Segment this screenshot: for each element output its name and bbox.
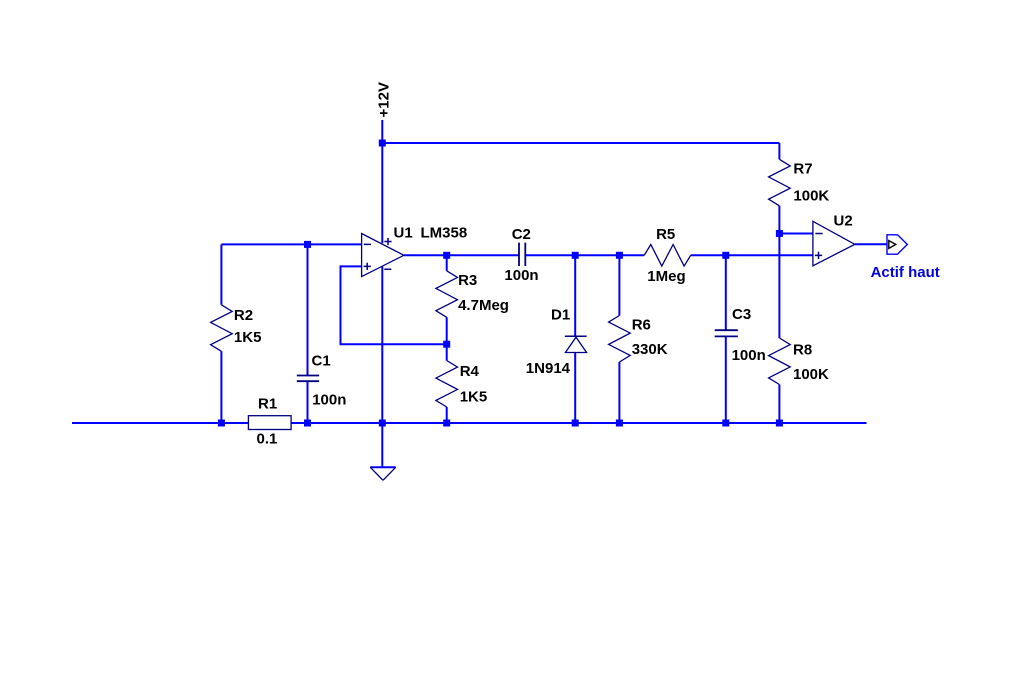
junction node rail C3	[722, 420, 729, 427]
wire R8 bottom to ground rail	[778, 385, 780, 424]
svg-text:1Meg: 1Meg	[647, 268, 685, 285]
junction node C1 top	[304, 241, 311, 248]
svg-text:Actif haut: Actif haut	[871, 264, 940, 281]
output port Actif haut	[887, 235, 907, 254]
wire bottom rail right of R1	[291, 422, 866, 424]
junction node rail ground	[379, 420, 386, 427]
junction node R3-R4 feedback	[443, 341, 450, 348]
resistor R5 (horizontal)	[644, 245, 691, 267]
svg-text:1N914: 1N914	[526, 360, 571, 377]
resistor R4	[436, 361, 458, 408]
svg-text:U2: U2	[834, 212, 853, 229]
svg-text:100n: 100n	[504, 267, 538, 284]
svg-text:R6: R6	[632, 316, 651, 333]
junction node rail R2	[218, 420, 225, 427]
svg-text:D1: D1	[551, 307, 570, 324]
diode D1	[565, 336, 587, 352]
svg-text:C2: C2	[512, 226, 531, 243]
op-amp U2 input marks	[815, 234, 823, 260]
junction node U2 inverting input	[776, 230, 783, 237]
resistor R2	[211, 305, 233, 352]
resistor R8	[769, 338, 791, 385]
wire top +12V rail	[382, 142, 779, 144]
junction node at +12V rail	[379, 140, 386, 147]
wire U1 bottom power to ground	[381, 266, 383, 467]
wire R4 bottom stub	[446, 407, 448, 423]
wire +12V vertical power drop through U1 top	[381, 120, 383, 243]
junction node C3 top	[722, 252, 729, 259]
svg-text:R1: R1	[258, 395, 277, 412]
svg-text:+12V: +12V	[376, 82, 393, 117]
junction node rail R8	[776, 420, 783, 427]
wire main signal U1 output to C2	[404, 254, 519, 256]
svg-text:C3: C3	[732, 306, 751, 323]
wire U2 output to port	[855, 243, 887, 245]
capacitor C2	[519, 243, 525, 266]
resistor R3	[436, 271, 458, 318]
wire R3 top stub	[446, 255, 448, 270]
svg-text:R5: R5	[656, 226, 675, 243]
wire R7 drop from rail	[778, 143, 780, 159]
wire R6 top stub	[618, 255, 620, 315]
svg-text:U1: U1	[394, 224, 413, 241]
wire R2 top to U1 inverting input	[221, 243, 361, 245]
svg-text:100n: 100n	[312, 392, 346, 409]
wire C3 bottom stub	[725, 336, 727, 423]
wire D1 bottom stub	[574, 353, 576, 424]
svg-text:R8: R8	[793, 341, 812, 358]
svg-text:C1: C1	[312, 353, 331, 370]
wire main signal R5 to U2 plus input	[691, 254, 813, 256]
junction node rail R6	[616, 420, 623, 427]
wire C3 top stub	[725, 255, 727, 330]
svg-text:330K: 330K	[632, 341, 668, 358]
wire U2 inverting input stub	[779, 233, 813, 235]
wire C1 bottom vertical	[307, 381, 309, 423]
ground	[370, 467, 395, 480]
svg-text:1K5: 1K5	[234, 329, 262, 346]
svg-text:100n: 100n	[732, 347, 766, 364]
svg-text:R4: R4	[460, 363, 480, 380]
svg-text:4.7Meg: 4.7Meg	[458, 297, 509, 314]
junction node R3 top / U1 output	[443, 252, 450, 259]
junction node rail R4	[443, 420, 450, 427]
svg-text:R3: R3	[458, 272, 477, 289]
wire main signal C2 to R5	[525, 254, 644, 256]
resistor R7	[769, 159, 791, 206]
wire R3 bottom stub	[446, 317, 448, 344]
svg-text:R7: R7	[793, 161, 812, 178]
svg-text:100K: 100K	[793, 187, 829, 204]
capacitor C3	[715, 330, 738, 336]
capacitor C1	[297, 376, 319, 382]
wire R7 to R8 vertical link	[778, 206, 780, 338]
wire D1 top stub	[574, 255, 576, 336]
wire R4 top stub	[446, 344, 448, 360]
resistor R1 (box style)	[248, 416, 291, 430]
wire U1 plus input feedback loop	[341, 266, 447, 344]
svg-text:R2: R2	[234, 307, 253, 324]
wire bottom rail left of R1	[72, 422, 248, 424]
op-amp U1	[362, 234, 404, 277]
wire R2 bottom vertical	[220, 351, 222, 423]
resistor R6 (mirrored)	[609, 316, 631, 363]
svg-text:1K5: 1K5	[460, 388, 488, 405]
op-amp U2	[813, 221, 855, 265]
junction node D1 top	[572, 252, 579, 259]
svg-text:LM358: LM358	[421, 224, 468, 241]
wire C1 top vertical	[307, 244, 309, 375]
wire R6 bottom stub	[618, 362, 620, 423]
junction node rail D1	[572, 420, 579, 427]
junction node rail C1	[304, 420, 311, 427]
svg-text:0.1: 0.1	[257, 430, 278, 447]
junction node R6 top	[616, 252, 623, 259]
wire R2 top vertical	[220, 244, 222, 304]
op-amp U1 input/power marks	[364, 238, 392, 270]
svg-text:100K: 100K	[793, 366, 829, 383]
